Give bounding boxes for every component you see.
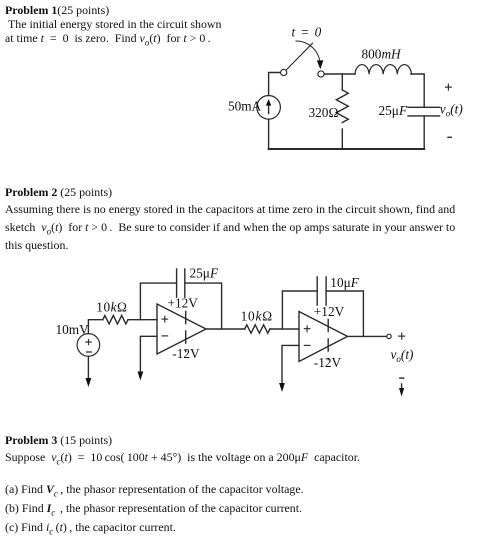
label - (P2 output)	[399, 377, 404, 379]
wire: R1 to op-amp U1 + input, node A junction	[128, 319, 157, 321]
feedback branch: node A up and across to C1	[140, 283, 176, 320]
svg-text:vo(t): vo(t)	[440, 102, 464, 119]
inductor 800mH	[355, 65, 411, 75]
op-amp U2 triangle	[299, 312, 348, 362]
Problem 1 text	[5, 5, 109, 17]
wire: left stub from source top to switch left throw	[269, 73, 281, 96]
wire: C2 right plate to output node, down	[326, 291, 363, 336]
feedback branch: node B up and across to C2	[282, 291, 317, 329]
svg-text:10kΩ: 10kΩ	[96, 299, 127, 314]
op-amp U2 - input label	[304, 344, 310, 346]
resistor 320 ohm zigzag	[336, 90, 348, 123]
switch blade (open, diagonal)	[286, 43, 312, 70]
wire: R2 to op-amp U2 + input, node B junction	[270, 328, 299, 330]
current source arrow	[268, 105, 270, 114]
wire: resistor top stub	[341, 74, 343, 90]
voltage source 10mV circle	[77, 334, 100, 357]
Problem 3 text	[5, 435, 112, 447]
wire: U1 output to R2	[206, 328, 245, 330]
resistor R2 10k zigzag	[245, 325, 270, 333]
svg-text:10mV: 10mV	[56, 322, 90, 337]
svg-text:t = 0: t = 0	[292, 24, 322, 39]
wire: source top to input node wire	[88, 320, 102, 334]
wire: top wire from right throw to inductor	[324, 73, 355, 75]
wire: U2 output to terminal	[348, 335, 387, 337]
ground arrow under U1 inverting input	[138, 372, 144, 381]
voltage source polarity marks	[85, 339, 92, 352]
svg-text:vo(t): vo(t)	[391, 347, 415, 364]
wire: capacitor bottom to bottom-right corner	[423, 116, 425, 149]
switch arc arrowhead	[317, 60, 324, 69]
capacitor 25uF plates	[408, 107, 440, 116]
label - (P1 output)	[447, 136, 452, 138]
wire: inductor to top-right corner and down to capacitor	[411, 74, 424, 107]
switch left throw terminal	[281, 69, 287, 75]
label + (P1 output)	[445, 84, 452, 91]
ground arrow under U2 inverting input	[279, 383, 285, 392]
wire: C1 right plate to output node, down	[185, 283, 222, 329]
reference arrow at output	[401, 384, 403, 389]
wire: bottom wire	[269, 148, 425, 150]
wire: source bottom to bottom wire	[268, 119, 270, 149]
switch closing arc t=0	[296, 41, 320, 64]
wire: U1 - input to ground	[140, 336, 157, 372]
op-amp U2 dashed supply line	[327, 320, 329, 360]
svg-text:+12V: +12V	[168, 295, 199, 310]
op-amp U1 triangle	[157, 304, 206, 354]
Problem 2 text	[5, 187, 112, 199]
svg-text:50mA: 50mA	[228, 99, 262, 114]
current source 50mA circle	[257, 96, 281, 120]
capacitor C1 25uF plates	[177, 269, 185, 297]
ground arrow under source	[86, 378, 92, 387]
svg-text:+12V: +12V	[314, 304, 345, 319]
svg-text:-12V: -12V	[172, 346, 200, 361]
op-amp U2 + input label	[304, 326, 310, 332]
op-amp U1 + input label	[162, 316, 168, 322]
resistor R1 10k zigzag	[103, 316, 128, 324]
svg-text:25μF: 25μF	[379, 103, 408, 118]
label + (P2 output)	[398, 333, 405, 340]
output terminal circle	[387, 334, 391, 338]
svg-text:25μF: 25μF	[190, 266, 219, 281]
switch right throw terminal	[318, 71, 324, 77]
svg-text:-12V: -12V	[314, 355, 342, 370]
svg-text:10μF: 10μF	[330, 275, 359, 290]
svg-text:10kΩ: 10kΩ	[241, 308, 273, 323]
svg-text:800mH: 800mH	[362, 47, 403, 62]
wire: source bottom to ground arrow	[87, 356, 89, 378]
op-amp U1 - input label	[162, 335, 168, 337]
wire: U2 - input to ground	[282, 345, 299, 384]
wire: resistor bottom stub	[341, 129, 343, 149]
svg-text:320Ω: 320Ω	[309, 105, 339, 120]
op-amp U1 dashed supply line	[185, 312, 187, 352]
capacitor C2 10uF plates	[317, 277, 326, 305]
